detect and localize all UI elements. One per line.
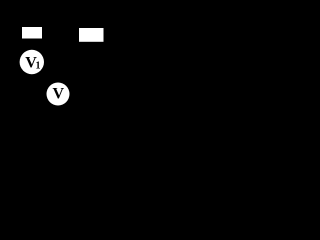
component block bar 1 (left) (22, 27, 42, 39)
voltmeter V1 (20, 50, 44, 74)
voltmeter V (47, 83, 70, 106)
svg-text:1: 1 (36, 61, 41, 72)
svg-text:V: V (53, 86, 65, 103)
component block bar 2 (right) (79, 28, 104, 42)
